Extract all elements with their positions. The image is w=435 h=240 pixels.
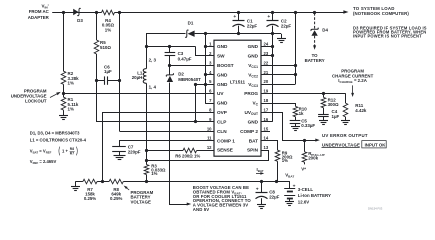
svg-text:SENSE: SENSE — [217, 148, 233, 153]
svg-text:0.25%: 0.25% — [110, 196, 122, 201]
svg-text:22µF: 22µF — [247, 23, 257, 28]
svg-text:MBR0540T: MBR0540T — [178, 77, 201, 82]
wire pin5-CLP vertical — [195, 84, 197, 122]
node C1 gnd junction — [237, 32, 240, 35]
ground C4 — [319, 120, 328, 122]
node SW-C3 junction — [168, 45, 171, 48]
node bus pin1 — [204, 45, 207, 48]
svg-text:1%: 1% — [105, 27, 111, 32]
svg-text:UV: UV — [217, 91, 224, 96]
node SENSE junction — [145, 149, 148, 152]
node pin5 ext junction — [194, 83, 197, 86]
wire D1 anode to gnd wire — [195, 33, 206, 35]
resistor R12 — [323, 94, 325, 98]
svg-text:+: + — [256, 188, 259, 193]
svg-text:13: 13 — [264, 145, 269, 150]
capacitor C6 — [96, 80, 104, 82]
wire R1 to ground — [63, 110, 65, 116]
svg-text:D1: D1 — [188, 21, 194, 26]
wire COMP1 line — [120, 141, 215, 147]
svg-text:11: 11 — [207, 136, 212, 141]
node C2 gnd junction — [271, 32, 274, 35]
svg-text:1%: 1% — [68, 107, 74, 112]
capacitor C8 — [261, 182, 263, 193]
wire BAT pin to R9 — [262, 141, 278, 151]
wire pin20 stub — [261, 84, 295, 86]
svg-text:D3: D3 — [77, 18, 83, 23]
resistor R11 — [345, 94, 347, 104]
ground C7 — [114, 155, 126, 157]
svg-text:CLP: CLP — [217, 119, 226, 124]
wire pin22 stub — [261, 65, 295, 67]
capacitor C5 — [295, 117, 297, 120]
node C8 rail — [260, 180, 263, 183]
node BOOST-D2 junction — [168, 64, 171, 67]
svg-text:GND: GND — [217, 82, 228, 87]
ground battery — [285, 201, 294, 203]
svg-text:GND: GND — [248, 119, 259, 124]
svg-text:GND: GND — [217, 72, 228, 77]
svg-text:+: + — [267, 15, 270, 20]
resistor R5 — [94, 40, 99, 54]
svg-text:Li-Ion BATTERY: Li-Ion BATTERY — [298, 193, 331, 198]
wire CLN to pin10 — [120, 131, 215, 133]
svg-text:24: 24 — [264, 42, 269, 47]
svg-text:R7: R7 — [70, 152, 74, 156]
svg-text:BATTERY: BATTERY — [305, 58, 325, 63]
svg-text:OVP: OVP — [217, 110, 227, 115]
svg-text:VOLTAGE: VOLTAGE — [131, 199, 151, 204]
svg-text:200k: 200k — [308, 156, 318, 161]
svg-text:SPIN: SPIN — [247, 148, 259, 153]
wire PROG line — [261, 93, 346, 95]
svg-text:LT1511: LT1511 — [230, 80, 246, 85]
wire pin23 stub — [261, 55, 272, 57]
svg-text:VBAT: VBAT — [285, 173, 294, 179]
wire pin24 stub — [261, 46, 272, 48]
svg-text:VCC3: VCC3 — [248, 82, 258, 88]
battery BT1 3-cell — [289, 182, 291, 189]
capacitor C4 — [323, 108, 325, 114]
ground C8 — [257, 204, 266, 206]
node bus pin4 — [204, 73, 207, 76]
wire SW net horiz — [146, 46, 195, 48]
svg-text:BAT: BAT — [249, 138, 258, 143]
capacitor C1 — [238, 12, 240, 20]
svg-text:20: 20 — [264, 79, 269, 84]
svg-text:22µF: 22µF — [281, 23, 291, 28]
svg-text:1%: 1% — [282, 158, 288, 163]
resistor R7 — [83, 179, 97, 184]
wire pin7 stub — [205, 103, 214, 105]
svg-text:0.25%: 0.25% — [84, 196, 96, 201]
node VCC pin22 — [294, 64, 297, 67]
svg-text:(NOTEBOOK COMPUTER): (NOTEBOOK COMPUTER) — [353, 11, 409, 16]
svg-text:VREF = 2.465V: VREF = 2.465V — [30, 159, 57, 165]
wire VC line — [261, 103, 295, 105]
wire pin1 stub — [205, 46, 214, 48]
wire SENSE to R6 — [146, 150, 183, 152]
node R9 rail — [275, 180, 278, 183]
resistor R6 — [183, 148, 197, 153]
svg-text:1k: 1k — [299, 111, 304, 116]
svg-text:4.42k: 4.42k — [355, 108, 367, 113]
svg-text:22: 22 — [264, 60, 269, 65]
svg-text:300Ω: 300Ω — [328, 102, 339, 107]
svg-text:17: 17 — [264, 107, 269, 112]
svg-text:GND: GND — [217, 101, 228, 106]
svg-text:CLN: CLN — [217, 129, 227, 134]
svg-text:R8: R8 — [70, 147, 74, 151]
node C6 right junction — [118, 79, 121, 82]
node SPIN-R3 junction — [145, 159, 148, 162]
node C2 rail — [271, 11, 274, 14]
wire pin5 stub ext — [196, 84, 215, 86]
svg-text:1µF: 1µF — [104, 69, 112, 74]
inductor L1 — [146, 47, 148, 69]
svg-text:10: 10 — [207, 126, 212, 131]
wire VCC vertical — [295, 12, 297, 84]
wire right gnd vertical — [272, 34, 274, 122]
svg-text:V*: V* — [301, 166, 306, 171]
svg-text:510Ω: 510Ω — [100, 45, 111, 50]
svg-text:UNDERVOLTAGE: UNDERVOLTAGE — [322, 142, 360, 147]
svg-text:1, 4: 1, 4 — [149, 84, 157, 89]
wire OVP line — [103, 113, 215, 182]
wire BOOST line — [170, 65, 214, 67]
resistor R9 — [275, 150, 280, 161]
wire GND bus — [205, 34, 207, 103]
svg-text:AND 5V: AND 5V — [193, 207, 209, 212]
svg-text:+: + — [233, 15, 236, 20]
svg-text:0.33µF: 0.33µF — [301, 123, 315, 128]
wire CLN drop — [119, 12, 121, 131]
svg-text:PROG: PROG — [244, 91, 258, 96]
resistor R3 — [144, 165, 149, 175]
node OVP divider junction — [101, 180, 104, 183]
svg-text:FROM AC: FROM AC — [29, 9, 50, 14]
svg-text:UV ERROR OUTPUT: UV ERROR OUTPUT — [322, 133, 368, 138]
svg-text:1%: 1% — [68, 81, 74, 86]
svg-text:2, 3: 2, 3 — [149, 57, 157, 62]
svg-text:UVOUT: UVOUT — [245, 110, 258, 116]
wire pin4 stub — [205, 74, 214, 76]
capacitor C3 — [169, 47, 171, 53]
wire R2-R1 link — [63, 84, 65, 97]
IC U1 LT1511 battery charger — [214, 40, 261, 156]
node R4-VCC junction (CLN tap) — [118, 11, 121, 14]
node pin5-CLP foot — [194, 120, 197, 123]
resistor R2 — [61, 71, 66, 84]
ground C1 C2 — [277, 38, 286, 40]
ground C5 — [291, 126, 300, 128]
node R3 rail junction — [145, 180, 148, 183]
wire D2 anode drop to boost note — [170, 83, 189, 205]
wire R3 to rail — [146, 175, 148, 182]
diode D4 dashed to battery — [314, 13, 316, 29]
wire C1C2 ground run — [205, 33, 281, 35]
resistor R1 — [61, 97, 66, 110]
node SW-L1 junction — [145, 45, 148, 48]
wire SW corner to pin2 — [196, 47, 215, 56]
resistor R8 — [109, 179, 123, 184]
svg-text:22µF: 22µF — [269, 194, 279, 199]
wire VIN top rail — [52, 12, 344, 14]
node rgnd pin24 — [271, 45, 274, 48]
resistor RPULL-UP — [304, 140, 306, 152]
svg-text:ICHARGE = 2.2A: ICHARGE = 2.2A — [338, 78, 367, 84]
node gnd-wire left — [204, 32, 207, 35]
svg-text:D1, D3, D4 = MBRS340T3: D1, D3, D4 = MBRS340T3 — [30, 131, 80, 136]
node C6 left junction — [95, 79, 98, 82]
svg-text:DN154 F03: DN154 F03 — [368, 207, 383, 211]
svg-text:VCC1: VCC1 — [248, 63, 258, 69]
wire pin15 stub — [261, 131, 270, 133]
svg-text:20µH: 20µH — [132, 75, 143, 80]
svg-text:INPUT OK: INPUT OK — [365, 142, 387, 147]
svg-text:ADAPTER: ADAPTER — [28, 15, 50, 20]
node VCC rail — [294, 11, 297, 14]
svg-text:INPUT POWER IS NOT PRESENT: INPUT POWER IS NOT PRESENT — [353, 34, 422, 39]
svg-text:0.47µF: 0.47µF — [178, 56, 192, 61]
svg-text:14: 14 — [264, 136, 269, 141]
svg-text:12: 12 — [207, 145, 212, 150]
node D4 rail — [313, 11, 316, 14]
svg-text:COMP 1: COMP 1 — [217, 138, 235, 143]
svg-text:GND: GND — [248, 44, 259, 49]
svg-text:220pF: 220pF — [128, 150, 141, 155]
wire L1 bottom drop — [146, 83, 148, 164]
wire R5 drop — [96, 12, 98, 40]
svg-text:3-CELL: 3-CELL — [298, 187, 314, 192]
resistor R4 — [102, 9, 115, 15]
wire UVOUT line — [262, 113, 317, 141]
wire pin21 stub — [261, 74, 295, 76]
node bus pin5 — [204, 83, 207, 86]
svg-text:COMP 2: COMP 2 — [240, 129, 258, 134]
ground R11 — [341, 120, 350, 122]
svg-text:D4: D4 — [322, 28, 328, 33]
diode D3 — [73, 9, 78, 15]
svg-text:1 +: 1 + — [62, 148, 68, 153]
svg-text:VBAT = VREF: VBAT = VREF — [30, 148, 52, 154]
svg-text:18: 18 — [264, 98, 269, 103]
svg-text:D2: D2 — [178, 71, 184, 76]
node PROG-R12 — [322, 92, 325, 95]
node UVOUT pullup — [303, 139, 306, 142]
svg-text:15: 15 — [264, 126, 269, 131]
resistor R10 — [293, 106, 298, 116]
wire SPIN loop — [147, 151, 269, 161]
svg-text:GND: GND — [217, 44, 228, 49]
wire R2 drop — [63, 12, 65, 71]
svg-text:GND: GND — [248, 54, 259, 59]
svg-text:19: 19 — [264, 89, 269, 94]
diode D2 — [169, 65, 171, 75]
node VCC pin21 — [294, 73, 297, 76]
svg-text:LOCKOUT: LOCKOUT — [25, 99, 47, 104]
wire pin16 stub — [261, 121, 272, 123]
node UV divider junction — [62, 92, 65, 95]
node rgnd pin23 — [271, 54, 274, 57]
wire R6 to pin12 — [197, 150, 214, 152]
svg-text:L1 = COILTRONICS CTX20-4: L1 = COILTRONICS CTX20-4 — [30, 138, 87, 143]
ground R1 — [59, 115, 68, 117]
wire CLP to pin9 — [96, 121, 214, 123]
svg-text:SW: SW — [217, 54, 225, 59]
wire UV line — [63, 93, 214, 95]
svg-text:1µF: 1µF — [332, 114, 340, 119]
wire R9 to VBAT rail — [277, 161, 279, 181]
svg-text:1%: 1% — [151, 171, 157, 176]
diode D1 — [188, 31, 195, 37]
capacitor C7 — [112, 146, 126, 148]
node VIN-R2 junction — [62, 11, 65, 14]
svg-text:R6 200Ω 1%: R6 200Ω 1% — [175, 154, 200, 159]
svg-text:VC: VC — [252, 101, 258, 107]
ground R7 left — [75, 182, 77, 187]
capacitor C2 — [272, 12, 274, 20]
wire SW node top — [147, 34, 186, 47]
wire battery rail — [75, 181, 83, 183]
svg-text:BOOST: BOOST — [217, 63, 234, 68]
arrowhead to system load — [343, 10, 348, 14]
svg-text:12.6V: 12.6V — [298, 199, 309, 204]
wire R5 to C6/CLP — [96, 54, 98, 122]
svg-text:VCC2: VCC2 — [248, 72, 258, 78]
svg-text:IBAT: IBAT — [257, 167, 264, 173]
node D3-R4 junction (CLP tap) — [95, 11, 98, 14]
node C1 rail — [237, 11, 240, 14]
